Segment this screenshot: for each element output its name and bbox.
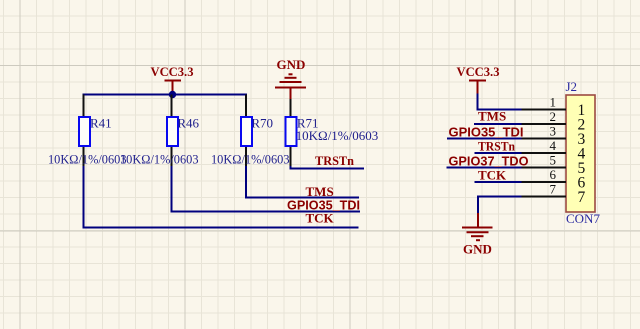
wire TCK (left) — [84, 166, 359, 228]
svg-text:TRSTn: TRSTn — [478, 139, 516, 154]
net label TCK (right) — [478, 168, 507, 183]
wire pin1 VCC — [478, 94, 522, 110]
svg-text:2: 2 — [550, 109, 557, 124]
svg-text:GPIO37_TDO: GPIO37_TDO — [449, 154, 529, 169]
svg-text:10KΩ/1%/0603: 10KΩ/1%/0603 — [211, 152, 290, 167]
svg-text:VCC3.3: VCC3.3 — [457, 64, 500, 79]
net label TRSTn (right) — [478, 139, 516, 154]
svg-text:TMS: TMS — [478, 109, 506, 124]
node VCC junction — [169, 91, 176, 98]
svg-text:3: 3 — [550, 123, 557, 138]
resistor R46 — [120, 95, 200, 168]
pin 6 — [522, 167, 586, 192]
svg-text:TCK: TCK — [306, 211, 335, 226]
svg-text:R70: R70 — [251, 116, 273, 131]
svg-text:7: 7 — [550, 181, 557, 196]
connector J2 — [566, 79, 601, 226]
wire pin3 GPIO35_TDI — [447, 138, 522, 140]
net label GPIO35_TDI (right) — [449, 124, 524, 139]
svg-text:TRSTn: TRSTn — [315, 153, 355, 168]
wire TMS (left) — [246, 166, 359, 198]
svg-text:10KΩ/1%/0603: 10KΩ/1%/0603 — [296, 128, 379, 143]
net label GPIO37_TDO (right) — [449, 154, 529, 169]
wire VCC bus — [83, 94, 248, 96]
svg-text:4: 4 — [550, 138, 557, 153]
svg-text:6: 6 — [550, 167, 557, 182]
wire GPIO35_TDI (left) — [172, 166, 361, 212]
pin 1 — [522, 94, 586, 119]
pin 3 — [522, 123, 586, 148]
resistor R71 — [286, 99, 379, 167]
svg-text:J2: J2 — [566, 79, 578, 94]
net label TRSTn (left) — [315, 153, 355, 168]
net label TCK (left) — [306, 211, 335, 226]
ground GND (left) — [275, 57, 306, 100]
svg-text:GPIO35_TDI: GPIO35_TDI — [449, 124, 524, 139]
power VCC3.3 (right) — [457, 64, 500, 94]
pin 2 — [522, 109, 586, 134]
svg-text:10KΩ/1%/0603: 10KΩ/1%/0603 — [48, 152, 127, 167]
ground GND (right) — [462, 213, 493, 257]
pin 5 — [522, 152, 586, 177]
svg-text:CON7: CON7 — [566, 211, 600, 226]
wire pin7 GND — [478, 197, 522, 214]
net label TMS (left) — [306, 184, 334, 199]
resistor R70 — [211, 95, 290, 168]
wire pin5 GPIO37_TDO — [447, 167, 522, 169]
pin 4 — [522, 138, 586, 163]
svg-text:10KΩ/1%/0603: 10KΩ/1%/0603 — [120, 152, 199, 167]
wire pin4 TRSTn — [475, 152, 522, 154]
svg-text:1: 1 — [550, 94, 557, 109]
svg-text:TCK: TCK — [478, 168, 507, 183]
resistor R41 — [48, 95, 127, 168]
pin 7 — [522, 181, 586, 206]
svg-text:7: 7 — [578, 189, 586, 206]
svg-text:GND: GND — [277, 57, 306, 72]
wire pin6 TCK — [475, 181, 522, 183]
svg-text:5: 5 — [550, 152, 557, 167]
net label GPIO35_TDI (left) — [287, 198, 360, 213]
svg-text:TMS: TMS — [306, 184, 334, 199]
svg-text:R46: R46 — [177, 116, 199, 131]
svg-text:GND: GND — [463, 242, 492, 257]
wire pin2 TMS — [474, 123, 522, 125]
power VCC3.3 (left) — [151, 64, 194, 94]
net label TMS (right) — [478, 109, 506, 124]
svg-text:R41: R41 — [90, 116, 112, 131]
svg-text:VCC3.3: VCC3.3 — [151, 64, 194, 79]
wire TRSTn (left) — [291, 166, 365, 169]
